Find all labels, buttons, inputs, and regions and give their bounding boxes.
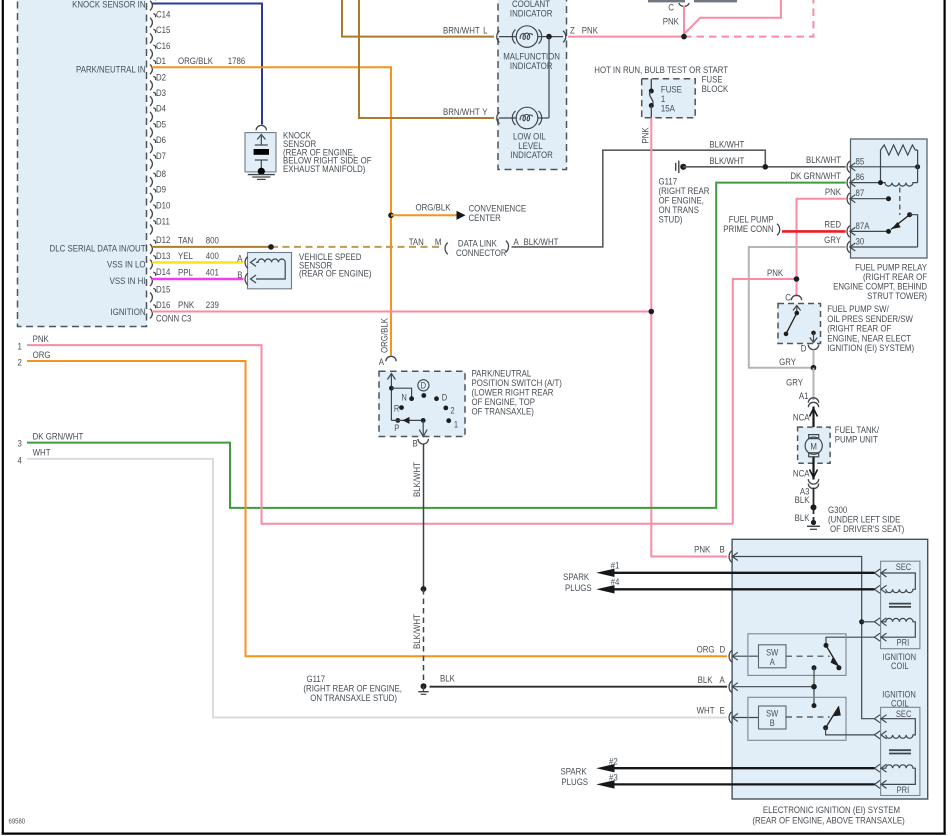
svg-text:M: M bbox=[435, 236, 442, 247]
dashed link SW A bbox=[786, 655, 830, 657]
coil 1 secondary winding bbox=[875, 569, 916, 593]
label IGNITION COIL 2 bbox=[882, 689, 916, 709]
svg-text:IGNITION (EI) SYSTEM): IGNITION (EI) SYSTEM) bbox=[827, 342, 914, 353]
coil 2 core bbox=[889, 750, 911, 753]
node: connector A of park/neutral switch bbox=[379, 356, 396, 367]
label SPARK PLUGS bottom bbox=[561, 766, 589, 788]
svg-text:(REAR OF ENGINE, ABOVE TRANSAX: (REAR OF ENGINE, ABOVE TRANSAXLE) bbox=[752, 815, 904, 826]
pin D10 bbox=[150, 200, 171, 219]
spark plug wire 2 bbox=[596, 756, 874, 773]
wire ORG/BLK to convenience center bbox=[391, 214, 457, 216]
svg-text:M: M bbox=[810, 441, 817, 452]
svg-text:#2: #2 bbox=[609, 756, 618, 767]
svg-text:CENTER: CENTER bbox=[469, 212, 501, 223]
pin 85 bbox=[847, 156, 920, 173]
svg-text:PLUGS: PLUGS bbox=[561, 776, 588, 787]
svg-text:ELECTRONIC IGNITION (EI) SYSTE: ELECTRONIC IGNITION (EI) SYSTEM bbox=[763, 804, 900, 815]
node: splice dot on TAN wire bbox=[268, 244, 274, 250]
pin D7 bbox=[150, 150, 166, 169]
driver SW A bbox=[759, 645, 787, 668]
label FUSE BLOCK bbox=[702, 74, 729, 95]
pin D1 bbox=[150, 55, 166, 74]
wire TAN dashed to data link connector bbox=[271, 246, 442, 248]
svg-text:3: 3 bbox=[18, 438, 22, 449]
svg-text:239: 239 bbox=[206, 299, 219, 310]
relay FUEL PUMP RELAY bbox=[851, 139, 928, 258]
label PNK 239 bbox=[178, 299, 219, 310]
svg-text:ORG: ORG bbox=[697, 644, 715, 655]
node: junction dot GRY bbox=[811, 365, 817, 371]
wire BLK/WHT dashed down to G117 bbox=[423, 589, 425, 683]
indicator cluster box bbox=[498, 0, 567, 170]
svg-text:PLUGS: PLUGS bbox=[565, 582, 592, 593]
svg-text:ON TRANSAXLE STUD): ON TRANSAXLE STUD) bbox=[310, 692, 397, 703]
label 1 PNK bbox=[18, 333, 49, 352]
wire ORG/BLK 1786 from pin D1 bbox=[152, 67, 391, 355]
PCM connector C3 block bbox=[18, 0, 147, 327]
node: connector D of fuel pump switch bbox=[801, 343, 819, 354]
svg-text:401: 401 bbox=[206, 267, 219, 278]
svg-text:D16: D16 bbox=[156, 299, 171, 310]
svg-text:#4: #4 bbox=[611, 576, 620, 587]
label TAN 800 bbox=[178, 235, 219, 246]
pin D6 bbox=[150, 134, 166, 153]
wire PNK from relay pin 87 down to fuel pump switch C bbox=[797, 199, 846, 297]
switch in relay bbox=[891, 212, 918, 247]
wire EI internal pin A to switch common bbox=[732, 686, 814, 688]
svg-text:DK GRN/WHT: DK GRN/WHT bbox=[790, 170, 841, 181]
node: connector A3 bbox=[800, 479, 819, 496]
cut-off label fragments at top edge bbox=[648, 0, 737, 2]
svg-text:VSS IN HI: VSS IN HI bbox=[110, 275, 146, 286]
svg-text:STRUT TOWER): STRUT TOWER) bbox=[867, 290, 927, 301]
svg-text:A: A bbox=[514, 236, 519, 247]
ground at knock sensor bbox=[248, 175, 275, 180]
svg-text:ORG/BLK: ORG/BLK bbox=[178, 55, 213, 66]
label FUEL PUMP SW / OIL PRES SENDER/SW bbox=[827, 303, 914, 353]
pin D13 bbox=[150, 250, 171, 269]
pin C15 bbox=[150, 24, 171, 43]
wire EI internal pin D to SW A bbox=[732, 655, 758, 657]
label 4 WHT bbox=[18, 447, 52, 466]
svg-text:A1: A1 bbox=[799, 390, 809, 401]
svg-text:PNK: PNK bbox=[663, 16, 679, 27]
wire BLK from A3 to splice bbox=[813, 488, 815, 506]
label G117 (RIGHT REAR OF ENGINE, ON TRANSAXLE STUD) bbox=[303, 673, 402, 703]
node: connector C of fuel pump switch bbox=[785, 292, 801, 303]
svg-text:PNK: PNK bbox=[178, 299, 194, 310]
svg-text:RED: RED bbox=[824, 219, 841, 230]
svg-text:D: D bbox=[442, 392, 447, 403]
fuel tank / pump unit bbox=[798, 427, 831, 463]
svg-text:A: A bbox=[237, 253, 242, 264]
label LOW OIL LEVEL INDICATOR bbox=[510, 131, 553, 161]
label SPARK PLUGS top bbox=[563, 571, 592, 593]
svg-text:BLOCK: BLOCK bbox=[702, 83, 729, 94]
vehicle speed sensor bbox=[245, 253, 291, 289]
dashed link SW B bbox=[786, 716, 830, 718]
svg-text:D13: D13 bbox=[156, 250, 171, 261]
wire PNK from fuse down to EI pin B bbox=[651, 118, 727, 557]
node: junction dot PNK at D16 wire bbox=[649, 309, 655, 315]
wire switch B to coil 2 secondary bbox=[826, 728, 875, 735]
svg-text:ORG: ORG bbox=[33, 349, 51, 360]
ignition coil 2 box bbox=[881, 707, 920, 795]
coil in relay bbox=[881, 183, 918, 187]
svg-text:D11: D11 bbox=[156, 216, 170, 227]
svg-text:BRN/WHT: BRN/WHT bbox=[443, 106, 480, 117]
wire resistor left leg bbox=[880, 150, 882, 183]
wire PNK riser from lower pink run up to fuel pump switch feed bbox=[733, 279, 797, 524]
pin B of EI bbox=[694, 544, 738, 563]
svg-text:PNK: PNK bbox=[582, 25, 598, 36]
pin C13 bbox=[150, 0, 156, 10]
svg-text:NCA: NCA bbox=[793, 468, 810, 479]
wire BLK/WHT from switch B down to splice bbox=[423, 444, 425, 589]
wire 2 ORG from left margin to EI pin D bbox=[27, 361, 727, 656]
label ELECTRONIC IGNITION (EI) SYSTEM (REAR OF ENGINE, ABOVE TRANSAXLE) bbox=[752, 804, 904, 825]
label ORG/BLK 1786 bbox=[178, 55, 245, 66]
svg-text:C: C bbox=[668, 2, 674, 13]
lamp LOW OIL LEVEL INDICATOR bbox=[497, 107, 549, 129]
svg-text:OF DRIVER'S SEAT): OF DRIVER'S SEAT) bbox=[830, 523, 904, 534]
svg-text:D: D bbox=[720, 644, 726, 655]
label COOLANT INDICATOR bbox=[510, 0, 553, 19]
svg-text:PRI: PRI bbox=[897, 784, 910, 795]
knock sensor bbox=[245, 125, 276, 174]
svg-text:D5: D5 bbox=[156, 119, 166, 130]
svg-text:GRY: GRY bbox=[779, 356, 796, 367]
svg-text:GRY: GRY bbox=[824, 234, 841, 245]
svg-text:D14: D14 bbox=[156, 266, 171, 277]
svg-text:#1: #1 bbox=[611, 560, 620, 571]
pin D3 bbox=[150, 87, 166, 106]
svg-text:BLK/WHT: BLK/WHT bbox=[806, 154, 842, 165]
pin D of EI bbox=[697, 644, 738, 662]
pin D5 bbox=[150, 119, 166, 138]
svg-text:PPL: PPL bbox=[178, 267, 193, 278]
ground G300 bbox=[807, 520, 820, 529]
svg-text:INDICATOR: INDICATOR bbox=[510, 8, 553, 19]
pin C14 bbox=[150, 9, 171, 28]
node: junction dot PNK bbox=[681, 34, 687, 40]
pin D15 bbox=[150, 284, 171, 303]
svg-text:C14: C14 bbox=[156, 9, 171, 20]
svg-text:D12: D12 bbox=[156, 234, 171, 245]
node: connector B of park/neutral switch bbox=[412, 438, 428, 449]
data link connector bbox=[409, 236, 559, 258]
svg-text:PNK: PNK bbox=[33, 333, 49, 344]
svg-text:WHT: WHT bbox=[33, 447, 51, 458]
wire BLK/WHT from DLC pin A up and over to G117 junction bbox=[512, 150, 766, 247]
node: splice dot BLK bbox=[811, 504, 817, 510]
svg-text:BRN/WHT: BRN/WHT bbox=[443, 25, 480, 36]
svg-text:TAN: TAN bbox=[178, 235, 193, 246]
svg-text:KNOCK SENSOR IN: KNOCK SENSOR IN bbox=[72, 0, 145, 9]
wire BRN/WHT to low oil level indicator bbox=[359, 0, 494, 118]
wire RED from prime conn to relay pin 87A bbox=[782, 230, 846, 233]
wire 4 WHT from left margin to EI pin E bbox=[27, 459, 727, 718]
svg-text:R: R bbox=[394, 403, 399, 414]
electronic ignition system box bbox=[732, 539, 928, 799]
fuse FUSE 1 15A bbox=[649, 79, 654, 118]
svg-text:PNK: PNK bbox=[825, 186, 841, 197]
spark plug wire 1 bbox=[596, 560, 874, 577]
node: junction dot pin B feed at coil 1 primary bbox=[859, 619, 864, 624]
wire PNK dashed branch to top edge bbox=[684, 0, 813, 37]
wire 1 PNK from left margin bbox=[27, 345, 733, 524]
pin A of EI bbox=[698, 674, 738, 692]
wire GRY from relay pin 30 down to fuel pump sender junction bbox=[749, 247, 846, 368]
svg-text:D9: D9 bbox=[156, 184, 166, 195]
switch B contacts and blade bbox=[823, 706, 841, 730]
svg-text:BLK/WHT: BLK/WHT bbox=[524, 236, 560, 247]
node: splice dot BLK/WHT bbox=[421, 586, 427, 592]
arrow to convenience center bbox=[457, 211, 466, 220]
node: junction dot BLK/WHT bbox=[763, 164, 769, 170]
label 2 ORG bbox=[18, 349, 51, 368]
svg-text:(REAR OF ENGINE): (REAR OF ENGINE) bbox=[299, 268, 372, 279]
wire YEL 400 from pin D13 bbox=[152, 261, 244, 263]
wire BRN/WHT to malfunction indicator bbox=[342, 0, 494, 37]
svg-text:DK GRN/WHT: DK GRN/WHT bbox=[33, 431, 84, 442]
svg-text:C: C bbox=[785, 292, 791, 303]
wire PNK from connector C down to junction bbox=[683, 6, 685, 37]
svg-text:BLK: BLK bbox=[698, 674, 713, 685]
svg-text:4: 4 bbox=[18, 455, 22, 466]
svg-text:BLK: BLK bbox=[795, 512, 810, 523]
svg-text:ORG/BLK: ORG/BLK bbox=[416, 202, 451, 213]
svg-text:87A: 87A bbox=[856, 220, 870, 231]
svg-text:BLK/WHT: BLK/WHT bbox=[411, 461, 422, 497]
svg-text:PNK: PNK bbox=[694, 544, 710, 555]
svg-text:BLK: BLK bbox=[795, 494, 810, 505]
wire switch common riser bbox=[811, 665, 817, 708]
pin 86 bbox=[847, 171, 880, 188]
pin 87 bbox=[847, 187, 891, 204]
coil 2 secondary winding bbox=[875, 715, 916, 739]
svg-text:15A: 15A bbox=[661, 103, 675, 114]
label FUEL PUMP PRIME CONN bbox=[723, 214, 773, 234]
pin 87A bbox=[847, 220, 891, 237]
node: coil left junction dot bbox=[878, 180, 883, 185]
label FUEL TANK/ PUMP UNIT bbox=[835, 424, 880, 445]
driver SW B bbox=[759, 706, 787, 729]
wire DK GRN/WHT from relay pin 86 to left margin pin 3 bbox=[27, 183, 846, 508]
node: junction dot PNK at switch feed bbox=[794, 276, 800, 282]
wire coil 1 primary bottom to SW A contact bbox=[826, 637, 875, 645]
svg-text:OF TRANSAXLE): OF TRANSAXLE) bbox=[472, 406, 534, 417]
svg-text:85: 85 bbox=[856, 156, 865, 167]
node: connector A1 bbox=[799, 390, 819, 407]
svg-text:PARK/NEUTRAL IN: PARK/NEUTRAL IN bbox=[76, 64, 145, 75]
pin E of EI bbox=[697, 705, 738, 723]
wire GRY down to connector A1 bbox=[813, 368, 815, 400]
node: junction dot ORG/BLK branch to convenience center bbox=[388, 213, 394, 219]
wire PNK diagonal branch up to top edge bbox=[684, 0, 781, 34]
svg-text:87: 87 bbox=[856, 187, 865, 198]
label PARK/NEUTRAL POSITION SWITCH (A/T) bbox=[472, 368, 562, 417]
svg-text:D2: D2 bbox=[156, 72, 166, 83]
svg-text:N: N bbox=[401, 392, 406, 403]
mechanical link dashed bbox=[899, 188, 901, 216]
wire PNK 239 from pin D16 to fuse feed bbox=[152, 311, 651, 313]
svg-text:400: 400 bbox=[206, 250, 219, 261]
pin D16 bbox=[150, 299, 171, 318]
node: fuel pump prime connector bbox=[777, 224, 780, 236]
label G300 (UNDER LEFT SIDE OF DRIVER'S SEAT) bbox=[828, 504, 904, 534]
label KNOCK SENSOR (REAR OF ENGINE, BELOW RIGHT SIDE OF EXHAUST MANIFOLD) bbox=[283, 130, 372, 175]
ground stud G117 bbox=[676, 161, 687, 173]
fuse block box bbox=[642, 79, 696, 118]
svg-text:800: 800 bbox=[206, 235, 219, 246]
svg-text:DLC SERIAL DATA IN/OUT: DLC SERIAL DATA IN/OUT bbox=[50, 243, 147, 254]
svg-text:2: 2 bbox=[450, 405, 454, 416]
svg-text:EXHAUST MANIFOLD): EXHAUST MANIFOLD) bbox=[283, 163, 365, 174]
lamp MALFUNCTION INDICATOR bbox=[497, 26, 563, 48]
svg-text:IGNITION: IGNITION bbox=[111, 306, 146, 317]
wire EI internal pin E to SW B bbox=[732, 717, 758, 719]
coil 1 core bbox=[889, 604, 911, 607]
svg-text:69580: 69580 bbox=[9, 818, 26, 826]
label IGNITION COIL 1 bbox=[883, 651, 917, 671]
pin D8 bbox=[150, 168, 166, 187]
node: junction dot bulbs common bbox=[546, 34, 552, 40]
pin C16 bbox=[150, 40, 171, 59]
svg-text:BLK/WHT: BLK/WHT bbox=[411, 613, 422, 649]
svg-text:BLK/WHT: BLK/WHT bbox=[709, 155, 745, 166]
wire coil 1 primary top to feed bbox=[862, 621, 875, 623]
svg-text:D7: D7 bbox=[156, 150, 166, 161]
svg-text:D: D bbox=[421, 380, 426, 391]
svg-text:Y: Y bbox=[482, 106, 487, 117]
svg-text:PNK: PNK bbox=[767, 267, 783, 278]
wire EI internal from pin B to coils bbox=[732, 557, 875, 719]
resistor in relay bbox=[881, 145, 918, 155]
svg-text:TAN: TAN bbox=[409, 236, 424, 247]
switch B assembly box bbox=[748, 697, 846, 740]
svg-text:INDICATOR: INDICATOR bbox=[510, 149, 553, 160]
svg-text:SEC: SEC bbox=[896, 708, 912, 719]
svg-text:SPARK: SPARK bbox=[561, 766, 587, 777]
svg-text:Z: Z bbox=[570, 25, 575, 36]
svg-text:SPARK: SPARK bbox=[563, 571, 589, 582]
wire NCA from pump motor down to connector A3 bbox=[810, 457, 818, 480]
svg-text:BLK: BLK bbox=[440, 673, 455, 684]
wire PNK from terminal Z bbox=[568, 36, 684, 38]
fuel pump switch / oil pressure sender bbox=[778, 304, 821, 344]
svg-text:1: 1 bbox=[454, 419, 458, 430]
pin D11 bbox=[150, 216, 170, 235]
switch A contacts and blade bbox=[824, 643, 842, 670]
svg-text:D4: D4 bbox=[156, 103, 166, 114]
svg-text:L: L bbox=[483, 25, 487, 36]
wire link between indicator bulbs bbox=[548, 37, 550, 118]
label G117 (RIGHT REAR OF ENGINE, ON TRANS STUD) bbox=[659, 176, 710, 225]
svg-text:E: E bbox=[720, 705, 725, 716]
svg-text:ORG/BLK: ORG/BLK bbox=[379, 318, 390, 353]
svg-text:PUMP UNIT: PUMP UNIT bbox=[835, 434, 879, 445]
svg-text:CONN C3: CONN C3 bbox=[156, 313, 191, 324]
svg-text:GRY: GRY bbox=[786, 377, 803, 388]
svg-text:B: B bbox=[237, 269, 242, 280]
wire NCA from A1 to pump motor bbox=[810, 407, 818, 436]
park/neutral position switch bbox=[379, 371, 465, 436]
label MALFUNCTION INDICATOR bbox=[503, 51, 560, 72]
pin 30 bbox=[847, 236, 918, 253]
svg-text:STUD): STUD) bbox=[659, 214, 683, 225]
label FUEL PUMP RELAY (RIGHT REAR OF ENGINE COMPT, BEHIND STRUT TOWER) bbox=[833, 262, 927, 301]
wire BLK/WHT from G117 stud to relay pin 85 bbox=[683, 166, 845, 168]
svg-text:2: 2 bbox=[18, 357, 22, 368]
svg-text:30: 30 bbox=[856, 236, 865, 247]
svg-text:VSS IN LO: VSS IN LO bbox=[107, 259, 146, 270]
label 3 DK GRN/WHT bbox=[18, 431, 84, 449]
svg-text:D3: D3 bbox=[156, 87, 166, 98]
label PPL 401 bbox=[178, 267, 219, 278]
svg-text:YEL: YEL bbox=[178, 250, 193, 261]
node: connector C at top bbox=[668, 2, 689, 13]
pin D4 bbox=[150, 103, 166, 122]
svg-text:1: 1 bbox=[18, 341, 22, 352]
svg-text:A: A bbox=[720, 674, 725, 685]
wire BLK from G117 stud to EI pin A bbox=[430, 686, 728, 688]
wire GRY from switch D to junction bbox=[813, 350, 815, 368]
svg-text:PRI: PRI bbox=[897, 637, 910, 648]
wire BLK dashed to ground G300 bbox=[813, 510, 815, 521]
svg-text:#3: #3 bbox=[609, 772, 618, 783]
wire resistor right leg bbox=[917, 150, 919, 183]
svg-text:B: B bbox=[720, 544, 725, 555]
svg-text:COIL: COIL bbox=[891, 660, 909, 671]
svg-text:BLK/WHT: BLK/WHT bbox=[709, 139, 745, 150]
svg-text:D1: D1 bbox=[156, 55, 166, 66]
label YEL 400 bbox=[178, 250, 219, 261]
switch A assembly box bbox=[748, 634, 846, 676]
svg-text:WHT: WHT bbox=[697, 705, 715, 716]
svg-text:C15: C15 bbox=[156, 24, 171, 35]
svg-text:B: B bbox=[412, 438, 417, 449]
svg-text:P: P bbox=[394, 422, 399, 433]
svg-text:1786: 1786 bbox=[228, 55, 246, 66]
svg-text:D15: D15 bbox=[156, 284, 171, 295]
wire TAN 800 from pin D12 bbox=[152, 246, 271, 248]
label FUSE 1 15A bbox=[661, 84, 682, 114]
svg-text:D6: D6 bbox=[156, 134, 166, 145]
svg-text:A: A bbox=[379, 356, 384, 367]
ignition coil 1 box bbox=[881, 561, 920, 649]
svg-text:PNK: PNK bbox=[640, 127, 651, 143]
svg-text:86: 86 bbox=[856, 171, 865, 182]
node: terminal Z bbox=[563, 25, 575, 43]
pin D14 bbox=[150, 266, 171, 286]
pin D9 bbox=[150, 184, 166, 203]
wire KNOCK SENSOR IN DK BLU: pin C13 right then down to knock sensor bbox=[152, 4, 262, 125]
wire PPL 401 from pin D14 bbox=[152, 278, 244, 280]
coil 2 primary winding bbox=[875, 764, 916, 788]
ground stud G117 transaxle bbox=[418, 683, 428, 694]
svg-text:B: B bbox=[770, 717, 775, 728]
svg-text:A: A bbox=[770, 656, 775, 667]
svg-text:D10: D10 bbox=[156, 200, 171, 211]
pin D12 bbox=[150, 234, 171, 254]
svg-text:D: D bbox=[801, 343, 807, 354]
svg-text:C16: C16 bbox=[156, 40, 171, 51]
svg-text:NCA: NCA bbox=[793, 412, 810, 423]
spark plug wire 4 bbox=[596, 576, 874, 593]
label CONVENIENCE CENTER bbox=[469, 203, 527, 224]
label VEHICLE SPEED SENSOR (REAR OF ENGINE) bbox=[299, 251, 372, 279]
